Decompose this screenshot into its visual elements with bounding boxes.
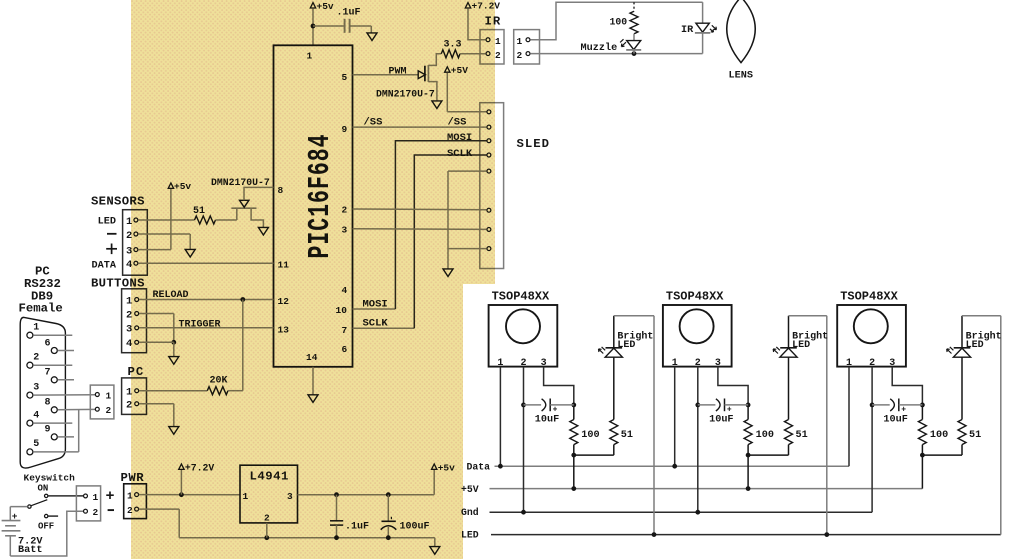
svg-text:1: 1 [495,36,501,47]
svg-text:2: 2 [495,50,501,61]
svg-text:LED: LED [617,340,635,351]
svg-text:Batt: Batt [18,545,42,556]
svg-text:TSOP48XX: TSOP48XX [840,289,898,303]
svg-text:LENS: LENS [729,71,753,82]
svg-text:2: 2 [517,50,523,61]
svg-text:100: 100 [756,430,774,441]
svg-text:8: 8 [45,398,51,409]
svg-text:DATA: DATA [92,260,117,271]
svg-text:1: 1 [33,322,39,333]
svg-text:TSOP48XX: TSOP48XX [492,289,550,303]
svg-text:10uF: 10uF [709,414,733,425]
svg-text:100: 100 [610,17,628,28]
svg-text:+5V: +5V [461,484,479,495]
svg-text:10uF: 10uF [883,414,907,425]
svg-text:51: 51 [969,430,981,441]
svg-text:100: 100 [581,430,599,441]
svg-text:7: 7 [45,368,51,379]
svg-text:+: + [12,511,18,522]
svg-text:LED: LED [966,340,984,351]
svg-text:SLED: SLED [517,137,551,151]
svg-text:51: 51 [796,430,808,441]
svg-text:9: 9 [45,425,51,436]
svg-text:10uF: 10uF [535,414,559,425]
svg-text:LED: LED [792,340,810,351]
svg-text:2: 2 [33,352,39,363]
svg-text:5: 5 [33,439,39,450]
svg-text:1: 1 [517,36,523,47]
svg-text:6: 6 [45,338,51,349]
svg-text:TSOP48XX: TSOP48XX [666,289,724,303]
svg-text:Muzzle: Muzzle [581,42,618,54]
svg-text:Gnd: Gnd [461,507,479,518]
svg-text:+: + [553,406,558,415]
svg-text:4: 4 [33,410,39,421]
svg-text:1: 1 [106,390,112,401]
svg-text:3: 3 [33,382,39,393]
svg-text:LED: LED [461,529,479,540]
svg-text:IR: IR [681,25,694,36]
svg-text:+: + [727,406,732,415]
svg-text:OFF: OFF [38,521,54,531]
svg-text:Female: Female [19,302,63,316]
svg-text:Data: Data [467,462,491,473]
svg-text:ON: ON [38,483,49,493]
svg-text:2: 2 [106,405,112,416]
svg-text:2: 2 [93,507,99,518]
svg-text:100: 100 [930,430,948,441]
svg-text:+: + [106,488,115,505]
svg-text:LED: LED [98,217,116,228]
svg-text:51: 51 [621,430,633,441]
svg-text:1: 1 [93,492,99,503]
svg-text:+: + [901,406,906,415]
svg-text:Keyswitch: Keyswitch [24,473,76,484]
